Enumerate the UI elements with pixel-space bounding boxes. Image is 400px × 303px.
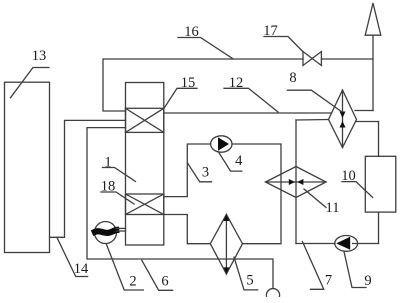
wire: pipe 16 loop from exchanger 15 up and across xyxy=(103,59,303,111)
label 1 xyxy=(103,168,136,182)
label 13 xyxy=(11,68,50,98)
svg-text:7: 7 xyxy=(325,273,332,289)
wire: exchanger 18 bottom to cooler 5 xyxy=(164,215,211,244)
label 3 xyxy=(188,163,212,182)
svg-text:2: 2 xyxy=(129,274,136,290)
label 17 xyxy=(264,37,303,52)
svg-text:3: 3 xyxy=(202,165,209,181)
drain hook xyxy=(266,289,279,297)
wire: exchanger 18 top to pump 4 xyxy=(164,144,211,197)
label 6 xyxy=(142,260,173,290)
label 11 xyxy=(304,189,326,208)
valve 17 xyxy=(303,52,321,66)
label 18 xyxy=(101,192,134,204)
svg-text:12: 12 xyxy=(229,75,244,91)
pump 9 xyxy=(335,236,358,252)
tank 13 xyxy=(5,82,50,252)
svg-text:8: 8 xyxy=(289,70,296,86)
column 1 (vessel) xyxy=(126,83,164,246)
condenser box 7 xyxy=(296,120,379,244)
label 12 xyxy=(224,88,278,112)
svg-text:17: 17 xyxy=(263,23,278,39)
label 7 xyxy=(302,242,323,290)
label 16 xyxy=(178,38,233,59)
wire: stack down to exchanger 8 xyxy=(355,110,373,112)
label 9 xyxy=(344,252,366,288)
pump 4 xyxy=(211,136,232,152)
svg-text:4: 4 xyxy=(235,153,243,169)
svg-text:16: 16 xyxy=(184,24,199,40)
heat exchanger 15 (crossed box) xyxy=(126,108,164,132)
svg-text:18: 18 xyxy=(101,179,116,195)
cooler 5 (diamond) xyxy=(210,214,242,274)
wire 14: tank 13 to exchanger 15 xyxy=(50,120,126,237)
svg-text:15: 15 xyxy=(181,75,196,91)
wire 6: exchanger 15 down around bottom to drain xyxy=(87,128,273,289)
svg-text:6: 6 xyxy=(161,274,168,290)
label 2 xyxy=(107,245,144,291)
label 10 xyxy=(342,182,373,198)
label 5 xyxy=(234,257,258,290)
heat exchanger 18 (crossed box) xyxy=(126,194,164,215)
box 10 xyxy=(365,156,396,212)
wire: pump 4 right and down to cooler 5 xyxy=(232,144,281,244)
svg-text:13: 13 xyxy=(32,48,47,64)
pump 2 xyxy=(95,222,126,244)
wire: valve to stack xyxy=(321,58,373,60)
heat exchanger 8 (diamond) xyxy=(329,90,357,148)
svg-text:11: 11 xyxy=(326,200,340,216)
label 15 xyxy=(164,88,197,108)
wire 12: column to exchanger 8 xyxy=(164,112,332,114)
exhaust stack arrow xyxy=(365,3,381,111)
svg-text:14: 14 xyxy=(74,261,89,277)
svg-text:10: 10 xyxy=(341,168,356,184)
svg-text:5: 5 xyxy=(246,273,253,289)
expansion device 11 (diamond) xyxy=(266,167,327,198)
label 4 xyxy=(218,152,242,172)
svg-text:9: 9 xyxy=(364,273,371,289)
label 14 xyxy=(57,237,88,276)
label 8 xyxy=(288,90,343,112)
svg-text:1: 1 xyxy=(104,155,111,171)
